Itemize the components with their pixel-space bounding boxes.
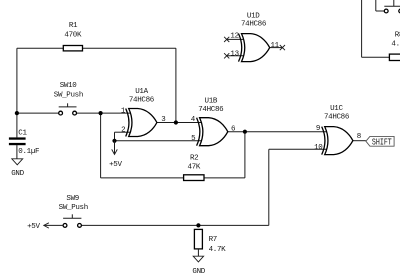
svg-text:U1B: U1B <box>205 97 218 105</box>
svg-text:9: 9 <box>316 125 320 133</box>
svg-text:SHIFT: SHIFT <box>372 136 392 147</box>
svg-text:SW10: SW10 <box>60 82 78 90</box>
svg-text:GND: GND <box>11 170 24 178</box>
svg-text:74HC86: 74HC86 <box>241 21 267 29</box>
wire: top-right rail vertical <box>361 0 363 57</box>
wire: J1 riser down from SW10 node <box>100 113 102 178</box>
wire: R1 right to corner <box>83 47 176 49</box>
wire: U1A output pin 3 to U1B pin 4 <box>157 122 202 124</box>
junction dot: +5V node <box>112 139 116 143</box>
junction dot: R7 top node <box>196 223 200 227</box>
wire: left rail to SW10 left contact <box>17 112 59 114</box>
xor gate U1B 74HC86 <box>191 97 236 145</box>
wire: C1 top lead <box>16 113 18 137</box>
svg-text:U1A: U1A <box>135 88 148 96</box>
svg-text:C1: C1 <box>18 129 27 137</box>
power +5V symbol at SW9 (arrow left) <box>27 223 63 231</box>
svg-text:12: 12 <box>230 33 238 41</box>
wire: U1C output pin 8 to SHIFT label <box>353 140 366 142</box>
wire: R7 bottom lead <box>197 249 199 256</box>
resistor R2 <box>184 155 204 181</box>
power +5V symbol at U1A pin2 (arrow down) <box>109 141 122 169</box>
no-connect X on U1D pin 11 <box>280 45 285 50</box>
wire: R2 riser up to U1B output node <box>244 132 246 178</box>
svg-text:R2: R2 <box>190 155 198 163</box>
wire: U1C pin 10 riser down <box>268 149 270 225</box>
wire: left rail vertical <box>16 48 18 113</box>
svg-text:74HC86: 74HC86 <box>129 96 155 104</box>
svg-text:13: 13 <box>230 51 239 59</box>
switch SW9 SW_Push <box>59 195 88 228</box>
svg-text:47K: 47K <box>188 164 201 172</box>
ground symbol for R7 <box>192 256 205 276</box>
capacitor C1 <box>9 129 39 156</box>
wire: +5V node to U1B pin 5 <box>115 140 202 142</box>
svg-text:SW9: SW9 <box>66 195 79 203</box>
svg-text:2: 2 <box>121 127 125 135</box>
xor gate U1C 74HC86 <box>314 105 361 155</box>
resistor R7 <box>194 229 226 254</box>
wire: R2 right lead <box>204 177 245 179</box>
resistor R1 <box>63 22 82 51</box>
svg-text:+5V: +5V <box>27 223 40 231</box>
svg-text:SW_Push: SW_Push <box>59 204 88 212</box>
svg-text:4.7K: 4.7K <box>209 246 227 254</box>
wire: U1D output pin 11 stub <box>270 47 283 49</box>
wire: U1D pin 13 stub <box>227 55 244 57</box>
svg-text:R7: R7 <box>209 236 217 244</box>
wire: U1C pin 10 horizontal <box>269 148 327 150</box>
svg-text:U1D: U1D <box>247 13 260 21</box>
switch SW10 SW_Push <box>54 82 83 115</box>
xor gate U1D 74HC86 <box>230 13 279 62</box>
junction dot: feedback riser on U1A output wire <box>174 120 178 124</box>
resistor R8 (cut off at right edge) <box>389 31 400 60</box>
wire: top-right switch feed horizontal <box>376 10 385 12</box>
wire: feedback riser down to U1A output node <box>175 48 177 122</box>
wire: C1 bottom lead to ground <box>16 145 18 159</box>
no-connect X on U1D pin 12 <box>224 37 229 42</box>
svg-text:U1C: U1C <box>330 105 343 113</box>
wire: bottom row from SW9 to riser <box>81 224 268 226</box>
wire: top feedback row from left rail to R1 left <box>17 47 63 49</box>
wire: U1D pin 12 stub <box>227 38 244 40</box>
ground symbol for C1 <box>11 159 24 178</box>
junction dot: SW10 right node J1 <box>99 111 103 115</box>
xor gate U1A 74HC86 <box>121 88 166 137</box>
wire: U1A pin 2 jog vertical down to +5V node <box>114 132 116 141</box>
wire: SW10 right contact to U1A pin 1 <box>77 112 131 114</box>
svg-text:8: 8 <box>357 133 361 141</box>
wire: U1A pin 2 jog horizontal <box>115 131 131 133</box>
wire: R2 left lead <box>101 177 184 179</box>
wire: top-right rail to R8 left lead <box>362 56 390 58</box>
junction dot: left rail / C1 / SW10 <box>15 111 19 115</box>
svg-text:470K: 470K <box>64 32 82 40</box>
wire: top-right switch feed vertical <box>375 0 377 11</box>
svg-text:R1: R1 <box>69 22 78 30</box>
svg-text:0.1µF: 0.1µF <box>18 148 39 156</box>
junction dot: U1B output node <box>243 130 247 134</box>
svg-text:GND: GND <box>192 268 205 276</box>
no-connect X on U1D pin 13 <box>224 53 229 58</box>
svg-text:+5V: +5V <box>109 161 122 169</box>
switch SW11 (cut off at top right) <box>384 0 400 13</box>
svg-text:4.7K: 4.7K <box>391 41 400 49</box>
svg-text:74HC86: 74HC86 <box>198 106 224 114</box>
svg-text:10: 10 <box>314 144 323 152</box>
global label SHIFT <box>366 136 394 147</box>
svg-text:SW_Push: SW_Push <box>54 91 83 99</box>
svg-text:R8: R8 <box>395 31 400 39</box>
wire: U1B output pin 6 to U1C pin 9 <box>228 131 327 133</box>
svg-text:74HC86: 74HC86 <box>324 113 350 121</box>
svg-text:11: 11 <box>271 42 280 50</box>
